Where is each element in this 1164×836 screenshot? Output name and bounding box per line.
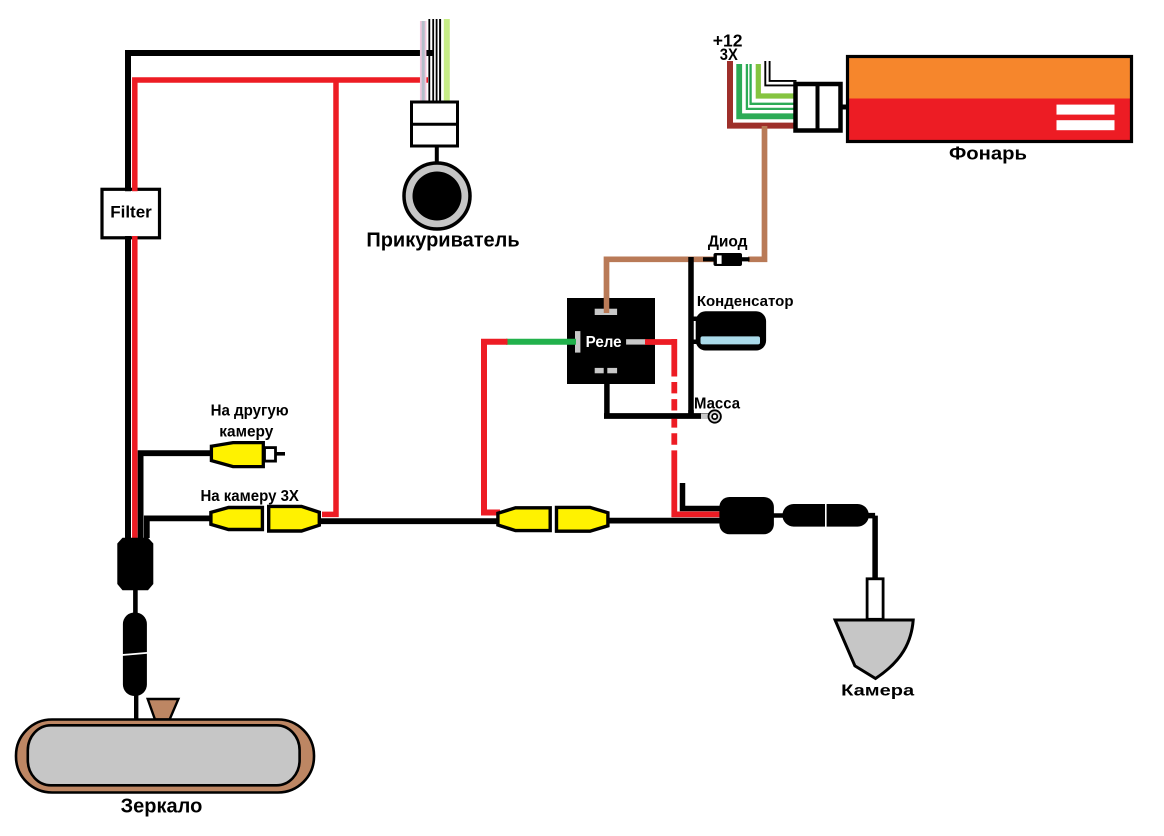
wire: from double bullet down to camera [866, 516, 875, 579]
ground ring terminal [701, 410, 721, 422]
wire: green trigger wire to relay [506, 339, 576, 345]
connector: cigarette lighter plug body [412, 102, 458, 146]
connector: middle RCA pair left half [498, 508, 550, 531]
wire: capacitor stubs [690, 319, 697, 342]
svg-text:На другую: На другую [211, 402, 289, 419]
wire: black wire stub up-left of camera connector [683, 483, 723, 509]
connector: camera bullet connector (big black) [719, 497, 774, 534]
svg-text:Конденсатор: Конденсатор [697, 293, 794, 310]
mirror mount (trapezoid) [148, 699, 179, 720]
wire: red dashed section [672, 382, 723, 517]
wire: stub between camera connectors [773, 513, 785, 518]
pin: relay top (86) [595, 309, 617, 315]
connector: lamp plug (two cells) [796, 84, 841, 131]
svg-text:камеру: камеру [219, 423, 273, 440]
wire: thick green L to lamp connector [739, 64, 796, 116]
fuse holder (black blob) [117, 538, 153, 591]
wire: red wire from relay right pin turning down (solid part) [645, 339, 674, 377]
camera stem [867, 579, 883, 620]
pin: relay bottom 87a [607, 368, 617, 373]
relay K1 body [567, 298, 655, 384]
pin: relay left (85) [575, 331, 580, 353]
diode D1 [703, 253, 750, 266]
svg-text:Фонарь: Фонарь [949, 143, 1027, 163]
wire: brown wire overlapping relay top to pin [604, 297, 610, 313]
camera body [835, 620, 913, 679]
mirror (Зеркало) [16, 720, 314, 793]
wire: maroon L to lamp connector [730, 61, 797, 126]
wire: red vertical branch to camera-3X connector [322, 80, 336, 514]
wire: black video cable between 3X pair and middle pair [317, 518, 500, 524]
wire: black L (outer) to lamp connector [765, 61, 796, 85]
svg-text:Диод: Диод [708, 234, 748, 251]
wire: pale green stripe in lighter bundle [444, 19, 450, 101]
wire: black video cable from middle pair to camera connector [606, 518, 722, 524]
svg-text:Filter: Filter [110, 203, 152, 222]
wire: brown wire from lamp bundle down to diode [748, 126, 765, 259]
filter box F1 [102, 188, 160, 240]
svg-text:Реле: Реле [586, 334, 622, 351]
wire: thin lead to mirror [134, 694, 138, 720]
white split line of capsule [120, 653, 150, 656]
wire: black video cable from fuse up to branches [141, 453, 213, 538]
wire: lime green L to lamp connector [758, 64, 796, 96]
wire: gray stripe in lighter bundle [422, 21, 425, 101]
cigarette lighter socket (circle) [404, 163, 470, 229]
wire: stub from lamp plug to lamp [841, 105, 849, 110]
wire: red power wire top-left (horizontal + vertical to fuse) [135, 80, 428, 538]
wire: black ground line from diode node down to chassis [604, 257, 709, 416]
connector: camera inline capsule joint [782, 504, 869, 527]
wire: brown wire from diode to relay top [607, 259, 716, 313]
wire: black ground bus redrawn over red dash [604, 410, 709, 416]
wire: stem to lighter socket [435, 146, 439, 163]
wire: pink stripe in lighter bundle [420, 21, 427, 101]
lamp (Фонарь) body [848, 57, 1132, 142]
wire: thin lead to inline connector [133, 589, 138, 614]
connector: RCA plug to other camera [211, 443, 285, 467]
wire: black thin wires of lighter bundle [429, 19, 440, 102]
svg-text:Прикуриватель: Прикуриватель [366, 230, 519, 252]
wire: black main power wire top-left (horizontal + vertical to fuse) [128, 53, 434, 538]
wire: red wire left of green, down to middle connector [481, 342, 508, 513]
capacitor C1 [696, 311, 766, 350]
connector: 3X RCA pair left half [211, 508, 263, 530]
pin: relay right (87) [626, 339, 646, 344]
wire: thin green L (outer) to lamp connector [747, 64, 797, 109]
svg-text:Зеркало: Зеркало [121, 795, 203, 817]
svg-text:На камеру 3X: На камеру 3X [200, 488, 299, 505]
connector: middle RCA pair right half [557, 507, 608, 531]
pin: relay bottom 30 [595, 368, 604, 373]
connector: 3X RCA pair right half [269, 506, 320, 531]
wire stubs crossing filter border [125, 188, 131, 240]
wire: thin green L (inner) to lamp connector [751, 64, 797, 104]
white split line of camera capsule [825, 503, 827, 527]
connector: inline capsule joint [123, 613, 147, 697]
wire: black L (inner) to lamp connector [770, 61, 797, 81]
svg-text:Камера: Камера [841, 682, 914, 699]
